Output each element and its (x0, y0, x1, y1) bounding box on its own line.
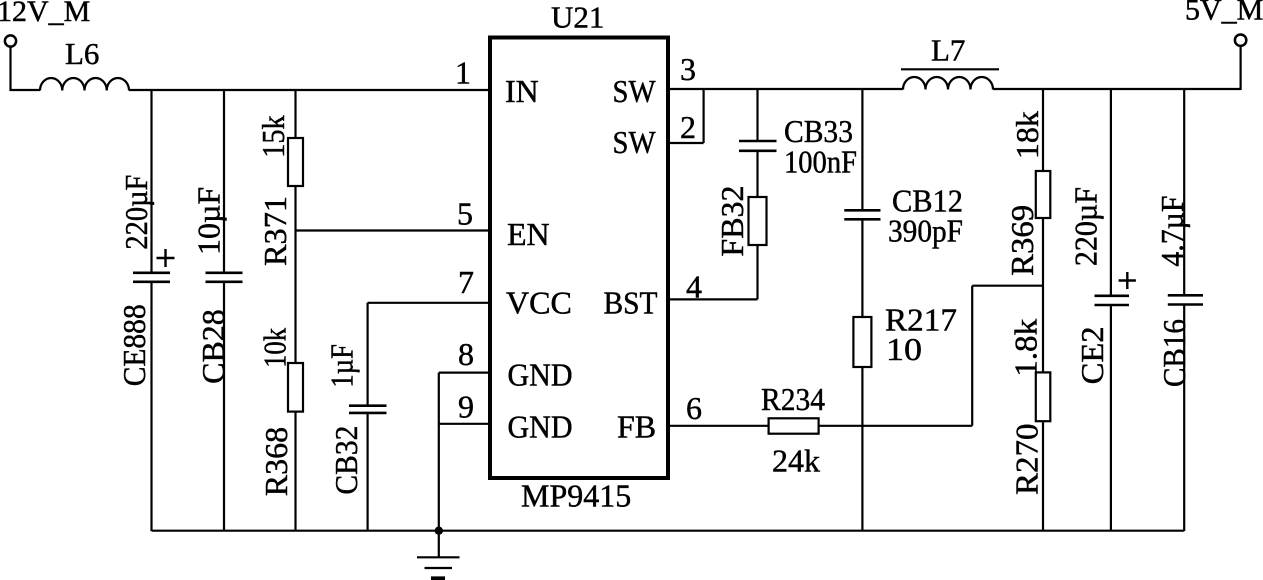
svg-text:BST: BST (604, 285, 658, 321)
svg-text:1.8k: 1.8k (1007, 319, 1043, 377)
svg-text:SW: SW (613, 73, 657, 109)
svg-text:1: 1 (455, 55, 471, 91)
capacitor CB12 (844, 210, 880, 219)
ground (417, 531, 460, 578)
svg-text:4: 4 (686, 269, 702, 305)
svg-text:CE888: CE888 (116, 304, 152, 386)
svg-text:4.7µF: 4.7µF (1154, 196, 1190, 267)
resistor R368 (288, 363, 303, 412)
plus CE888 (157, 249, 175, 267)
svg-text:SW: SW (613, 124, 657, 160)
wire (819, 286, 1043, 426)
capacitor CE2 (1095, 296, 1130, 305)
svg-text:CB28: CB28 (195, 309, 231, 384)
wire EN (296, 229, 489, 231)
svg-text:EN: EN (507, 216, 550, 252)
wire VCC (368, 303, 488, 405)
svg-text:10: 10 (886, 331, 922, 367)
inductor L7 (903, 77, 993, 90)
wire (1042, 89, 1044, 171)
svg-text:FB32: FB32 (714, 185, 750, 256)
terminal 5V_M (1235, 35, 1246, 46)
svg-text:R270: R270 (1009, 424, 1045, 496)
svg-text:5V_M: 5V_M (1185, 0, 1263, 27)
svg-text:390pF: 390pF (888, 213, 963, 249)
svg-text:GND: GND (508, 357, 573, 393)
svg-text:U21: U21 (551, 0, 604, 35)
terminal 12V_M (5, 35, 16, 46)
svg-text:R234: R234 (761, 381, 825, 417)
wire (150, 283, 152, 531)
svg-text:7: 7 (458, 264, 474, 300)
wire (1110, 89, 1112, 295)
svg-text:IN: IN (505, 73, 539, 109)
svg-text:12V_M: 12V_M (0, 0, 90, 28)
resistor R270 (1036, 372, 1051, 421)
op-amp U21 IC box (490, 38, 668, 479)
wire SW rail (668, 88, 903, 90)
svg-text:CB16: CB16 (1156, 319, 1192, 387)
svg-text:9: 9 (458, 389, 474, 425)
svg-text:GND: GND (508, 409, 573, 445)
svg-text:18k: 18k (1009, 111, 1045, 159)
wire (756, 152, 758, 197)
svg-text:FB: FB (617, 409, 656, 445)
wire (861, 367, 863, 531)
svg-text:15k: 15k (255, 115, 291, 158)
resistor R371 (288, 138, 303, 186)
junction dot (435, 527, 443, 535)
svg-text:10µF: 10µF (190, 187, 226, 255)
wire (1042, 421, 1044, 531)
wire (861, 220, 863, 317)
wire (756, 89, 758, 140)
wire (129, 89, 490, 91)
capacitor CB28 (206, 273, 243, 282)
wire (294, 186, 296, 363)
svg-text:24k: 24k (772, 442, 820, 478)
wire (670, 245, 758, 299)
wire (1183, 89, 1185, 294)
wire (223, 90, 225, 272)
wire FB (670, 425, 769, 427)
svg-text:L7: L7 (931, 33, 965, 68)
svg-text:1µF: 1µF (324, 344, 360, 388)
wire ground bus (152, 530, 1185, 532)
svg-text:CE2: CE2 (1074, 326, 1110, 384)
svg-text:8: 8 (458, 336, 474, 372)
capacitor CE888 (133, 273, 170, 282)
wire snubber (861, 89, 863, 209)
wire (150, 90, 152, 272)
resistor R234 (769, 418, 819, 433)
svg-text:2: 2 (680, 109, 696, 145)
resistor R369 (1036, 171, 1051, 218)
wire (1183, 306, 1185, 532)
svg-text:MP9415: MP9415 (521, 478, 631, 514)
capacitor CB33 (739, 141, 777, 151)
wire (294, 412, 296, 531)
inductor L6 (40, 78, 129, 91)
wire output rail (993, 88, 1241, 90)
wire GND pin9 (439, 423, 488, 425)
svg-text:3: 3 (680, 51, 696, 87)
resistor R217 (853, 317, 871, 367)
svg-text:220µF: 220µF (1067, 187, 1103, 266)
wire pin2 (668, 89, 704, 143)
wire (1239, 46, 1241, 90)
svg-text:220µF: 220µF (118, 175, 154, 250)
wire (223, 283, 225, 531)
svg-text:100nF: 100nF (784, 144, 857, 180)
wire (294, 90, 296, 138)
svg-text:VCC: VCC (506, 285, 572, 321)
wire (1110, 306, 1112, 531)
capacitor CB16 (1168, 295, 1203, 304)
ferrite bead FB32 (749, 197, 767, 245)
wire (1042, 218, 1044, 372)
svg-text:10k: 10k (256, 328, 292, 368)
svg-text:R369: R369 (1004, 205, 1040, 276)
wire GND pin8 (439, 373, 488, 531)
capacitor CB32 (349, 406, 387, 413)
svg-text:R368: R368 (258, 427, 294, 496)
wire (10, 47, 41, 92)
svg-text:CB32: CB32 (328, 426, 364, 495)
svg-text:R371: R371 (257, 196, 293, 266)
plus CE2 (1119, 272, 1136, 289)
svg-text:5: 5 (457, 196, 473, 232)
svg-text:6: 6 (686, 390, 702, 426)
svg-text:L6: L6 (65, 36, 99, 71)
wire (367, 414, 369, 531)
